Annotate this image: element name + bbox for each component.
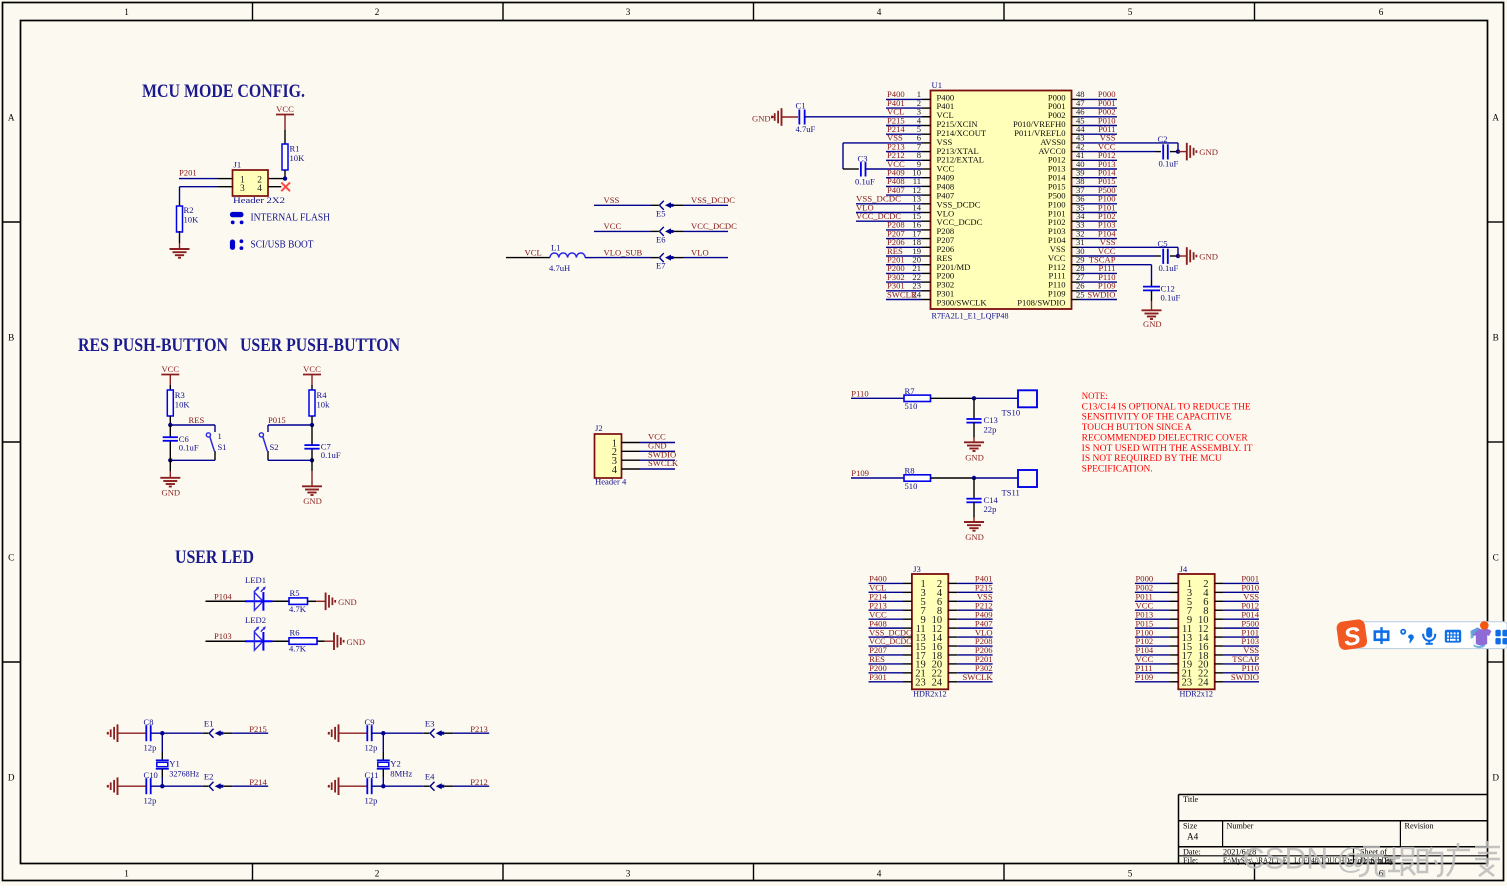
svg-text:10k: 10k [317, 400, 331, 410]
svg-text:B: B [1493, 333, 1499, 343]
svg-text:6: 6 [1379, 7, 1384, 17]
svg-text:3: 3 [240, 184, 245, 194]
svg-text:IS NOT USED WITH THE ASSEMBLY.: IS NOT USED WITH THE ASSEMBLY. IT [1082, 444, 1253, 454]
svg-text:GND: GND [965, 532, 984, 542]
svg-text:HDR2x12: HDR2x12 [1180, 688, 1214, 698]
svg-text:VCC: VCC [303, 364, 321, 374]
svg-text:2: 2 [375, 869, 380, 879]
svg-text:D: D [1492, 773, 1499, 783]
svg-text:Number: Number [1227, 821, 1254, 830]
svg-text:23: 23 [915, 678, 926, 689]
svg-text:VCC: VCC [276, 104, 294, 114]
svg-text:SWCLK: SWCLK [963, 672, 994, 682]
svg-text:A: A [1492, 113, 1499, 123]
svg-text:C11: C11 [365, 770, 379, 780]
svg-text:SWCLK: SWCLK [648, 458, 679, 468]
svg-text:C2: C2 [1158, 134, 1168, 144]
svg-text:RECOMMENDED DIELECTRIC COVER: RECOMMENDED DIELECTRIC COVER [1082, 433, 1249, 443]
svg-text:C8: C8 [144, 717, 154, 727]
svg-text:4.7uH: 4.7uH [549, 263, 570, 273]
svg-text:NOTE:: NOTE: [1082, 392, 1108, 402]
svg-text:0.1uF: 0.1uF [1159, 158, 1179, 168]
svg-text:GND: GND [162, 488, 181, 498]
svg-text:P300/SWCLK: P300/SWCLK [937, 297, 988, 307]
svg-text:GND: GND [752, 113, 771, 123]
svg-text:R2: R2 [184, 205, 194, 215]
svg-text:25: 25 [1076, 289, 1085, 299]
svg-text:12p: 12p [144, 743, 157, 753]
svg-text:S1: S1 [218, 442, 227, 452]
svg-text:4.7K: 4.7K [289, 644, 307, 654]
svg-text:SWDIO: SWDIO [1231, 672, 1259, 682]
svg-text:INTERNAL FLASH: INTERNAL FLASH [251, 212, 331, 223]
svg-text:P109: P109 [1136, 672, 1154, 682]
svg-text:Title: Title [1183, 795, 1199, 804]
svg-text:TOUCH BUTTON SINCE A: TOUCH BUTTON SINCE A [1082, 423, 1192, 433]
svg-text:GND: GND [1199, 252, 1218, 262]
svg-text:J4: J4 [1180, 564, 1188, 574]
svg-text:4: 4 [257, 184, 262, 194]
svg-text:P212: P212 [470, 777, 488, 787]
svg-text:LED1: LED1 [245, 575, 266, 585]
svg-text:HDR2x12: HDR2x12 [913, 688, 947, 698]
svg-text:J1: J1 [234, 159, 242, 169]
svg-text:C: C [1493, 553, 1499, 563]
svg-text:VLO: VLO [691, 247, 709, 257]
svg-text:4.7K: 4.7K [289, 604, 307, 614]
svg-text:U1: U1 [932, 80, 943, 90]
svg-text:0.1uF: 0.1uF [179, 442, 199, 452]
svg-text:GND: GND [347, 637, 366, 647]
svg-text:P103: P103 [214, 631, 232, 641]
svg-text:GND: GND [965, 453, 984, 463]
svg-text:P110: P110 [851, 388, 868, 398]
svg-text:SPECIFICATION.: SPECIFICATION. [1082, 464, 1153, 474]
svg-text:J3: J3 [913, 564, 921, 574]
svg-text:24: 24 [1198, 678, 1209, 689]
svg-text:GND: GND [1199, 147, 1218, 157]
svg-text:S2: S2 [270, 442, 279, 452]
svg-text:12p: 12p [365, 796, 378, 806]
svg-text:1: 1 [124, 869, 129, 879]
svg-text:USER PUSH-BUTTON: USER PUSH-BUTTON [240, 335, 400, 356]
svg-text:J2: J2 [595, 423, 603, 433]
svg-text:VCC: VCC [604, 221, 622, 231]
svg-text:C1: C1 [796, 101, 806, 111]
svg-text:24: 24 [932, 678, 943, 689]
svg-text:D: D [8, 773, 15, 783]
svg-text:R8: R8 [905, 466, 915, 476]
svg-text:10K: 10K [175, 400, 191, 410]
svg-text:22p: 22p [984, 424, 997, 434]
svg-text:A4: A4 [1187, 831, 1199, 841]
svg-text:GND: GND [303, 496, 322, 506]
svg-text:RES: RES [189, 415, 205, 425]
svg-text:12p: 12p [144, 796, 157, 806]
svg-text:3: 3 [626, 7, 631, 17]
svg-text:RES PUSH-BUTTON: RES PUSH-BUTTON [78, 335, 228, 356]
svg-text:23: 23 [1182, 678, 1193, 689]
svg-text:0.1uF: 0.1uF [1159, 263, 1179, 273]
svg-text:0.1uF: 0.1uF [855, 177, 875, 187]
svg-text:LED2: LED2 [245, 615, 266, 625]
svg-text:E5: E5 [656, 208, 666, 218]
svg-text:1: 1 [124, 7, 129, 17]
svg-text:R7: R7 [905, 386, 916, 396]
svg-text:22p: 22p [984, 504, 997, 514]
svg-text:10K: 10K [290, 153, 306, 163]
svg-text:VCL: VCL [525, 247, 542, 257]
svg-text:4.7uF: 4.7uF [796, 124, 816, 134]
svg-text:File:: File: [1183, 856, 1198, 865]
svg-text:8MHz: 8MHz [390, 769, 412, 779]
svg-text:SCI/USB BOOT: SCI/USB BOOT [251, 239, 315, 250]
svg-text:P108/SWDIO: P108/SWDIO [1017, 297, 1065, 307]
svg-text:12p: 12p [365, 743, 378, 753]
svg-text:P015: P015 [268, 415, 286, 425]
svg-text:R6: R6 [290, 628, 301, 638]
svg-text:VSS: VSS [604, 195, 620, 205]
svg-text:0.1uF: 0.1uF [1161, 293, 1181, 303]
svg-text:P215: P215 [249, 724, 267, 734]
svg-text:0.1uF: 0.1uF [321, 450, 341, 460]
svg-text:P201: P201 [179, 168, 197, 178]
svg-text:E2: E2 [204, 772, 214, 782]
svg-text:MCU MODE CONFIG.: MCU MODE CONFIG. [142, 81, 305, 102]
svg-text:4: 4 [877, 869, 882, 879]
svg-text:R5: R5 [290, 588, 300, 598]
svg-text:TS11: TS11 [1002, 487, 1020, 497]
svg-text:2: 2 [375, 7, 380, 17]
svg-text:C3: C3 [858, 154, 868, 164]
svg-text:R1: R1 [290, 144, 300, 154]
svg-text:C9: C9 [365, 717, 375, 727]
svg-text:VCC: VCC [161, 364, 179, 374]
svg-text:GND: GND [1143, 319, 1162, 329]
svg-text:TS10: TS10 [1002, 408, 1021, 418]
svg-text:GND: GND [338, 597, 357, 607]
svg-text:C5: C5 [1158, 239, 1168, 249]
svg-text:R7FA2L1_E1_LQFP48: R7FA2L1_E1_LQFP48 [932, 311, 1009, 321]
svg-text:CSDN @: CSDN @ [1243, 843, 1367, 876]
svg-text:24: 24 [912, 289, 921, 299]
svg-text:4: 4 [612, 465, 618, 476]
svg-text:E1: E1 [204, 719, 214, 729]
svg-text:Size: Size [1183, 821, 1197, 830]
svg-text:P214: P214 [249, 777, 267, 787]
svg-text:E7: E7 [656, 261, 666, 271]
svg-text:R4: R4 [317, 390, 328, 400]
svg-text:VLO_SUB: VLO_SUB [604, 247, 643, 257]
svg-text:USER LED: USER LED [175, 547, 254, 568]
svg-text:C10: C10 [144, 770, 158, 780]
svg-text:Header 2X2: Header 2X2 [233, 195, 285, 205]
svg-text:E3: E3 [425, 719, 435, 729]
svg-text:VCC_DCDC: VCC_DCDC [691, 221, 737, 231]
svg-text:SWDIO: SWDIO [1087, 289, 1115, 299]
svg-text:10K: 10K [184, 215, 200, 225]
svg-text:5: 5 [1128, 869, 1133, 879]
svg-text:C13/C14 IS OPTIONAL TO REDUCE: C13/C14 IS OPTIONAL TO REDUCE THE [1082, 402, 1251, 412]
svg-text:32768Hz: 32768Hz [169, 769, 199, 779]
svg-text:E4: E4 [425, 772, 435, 782]
svg-text:510: 510 [905, 401, 918, 411]
svg-text:1: 1 [218, 431, 222, 441]
svg-text:L1: L1 [551, 242, 561, 252]
svg-text:SENSITIVITY OF THE CAPACITIVE: SENSITIVITY OF THE CAPACITIVE [1082, 413, 1232, 423]
svg-text:P213: P213 [470, 724, 488, 734]
svg-text:C: C [8, 553, 14, 563]
svg-text:3: 3 [626, 869, 631, 879]
svg-text:IS NOT REQUIRED BY THE MCU: IS NOT REQUIRED BY THE MCU [1082, 454, 1222, 464]
svg-text:P104: P104 [214, 591, 232, 601]
svg-text:VSS_DCDC: VSS_DCDC [691, 195, 735, 205]
svg-text:B: B [8, 333, 14, 343]
svg-text:P301: P301 [869, 672, 887, 682]
svg-text:510: 510 [905, 481, 918, 491]
svg-text:5: 5 [1128, 7, 1133, 17]
svg-text:Revision: Revision [1405, 821, 1434, 830]
svg-text:E6: E6 [656, 234, 666, 244]
svg-text:A: A [8, 113, 15, 123]
svg-text:P109: P109 [851, 468, 869, 478]
svg-text:4: 4 [877, 7, 882, 17]
svg-text:Y1: Y1 [169, 758, 180, 768]
svg-text:Y2: Y2 [390, 758, 401, 768]
svg-text:R3: R3 [175, 390, 185, 400]
svg-text:Header 4: Header 4 [595, 476, 627, 486]
